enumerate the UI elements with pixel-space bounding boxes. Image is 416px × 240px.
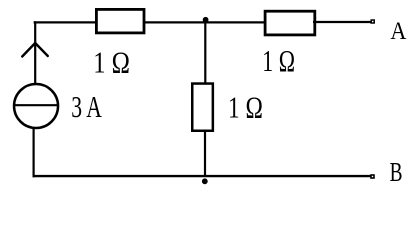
svg-text:3 A: 3 A [71, 89, 102, 124]
resistor R1 [96, 9, 144, 33]
wire left vertical bottom (source bottom to bottom wire) [32, 128, 34, 177]
wire R1 to node (top middle) [144, 21, 265, 23]
wire node to R3 (middle vertical) [204, 21, 206, 84]
resistor R2 [265, 11, 315, 35]
arrow of current source (pointing up) [22, 43, 48, 57]
label R2 value 1 Ω [262, 43, 295, 78]
terminal A square [371, 20, 374, 23]
wire bottom (source to terminal B) [33, 175, 371, 177]
wire top (corner to R1) [34, 21, 96, 23]
svg-text:1 Ω: 1 Ω [228, 91, 263, 125]
label terminal A [390, 18, 407, 46]
wire R2 to terminal A [313, 21, 371, 23]
svg-text:1 Ω: 1 Ω [93, 46, 130, 80]
terminal B square [371, 175, 374, 178]
label R1 value 1 Ω [93, 46, 130, 80]
label terminal B [390, 158, 403, 188]
resistor R3 [192, 84, 213, 131]
wire left vertical (source top to top-left corner) [34, 21, 36, 84]
label source value 3 A [71, 89, 102, 124]
current source I1 circle [14, 84, 58, 128]
node bottom junction dot [202, 178, 208, 184]
svg-text:A: A [390, 18, 407, 46]
label R3 value 1 Ω [228, 91, 263, 125]
current source I1 chord line [14, 104, 59, 106]
node top junction dot [203, 17, 209, 23]
svg-text:B: B [390, 158, 403, 188]
svg-text:1 Ω: 1 Ω [262, 43, 295, 78]
wire R3 to bottom node [204, 132, 206, 177]
